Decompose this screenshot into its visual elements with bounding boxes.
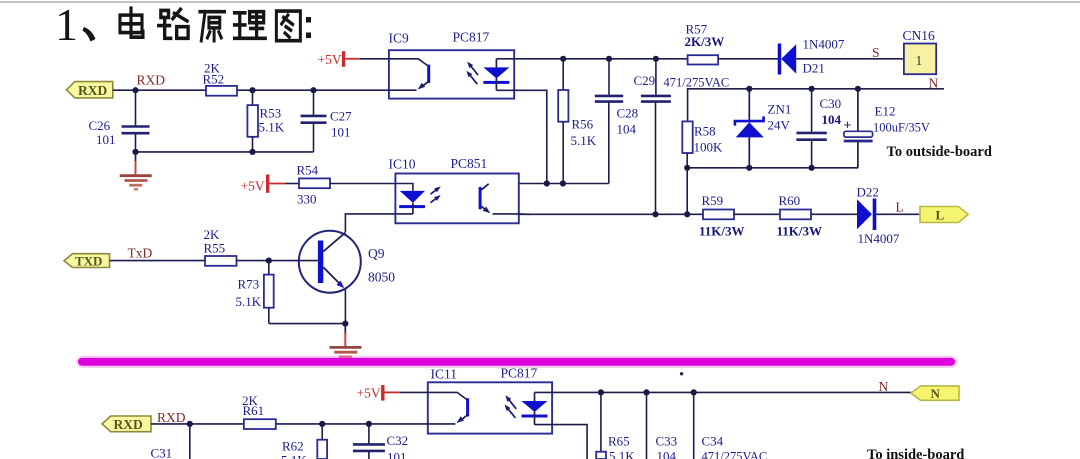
resistor R55 xyxy=(205,256,237,266)
svg-text:To outside-board: To outside-board xyxy=(887,144,992,160)
junction node C33 top xyxy=(643,389,649,395)
connector flag RXD (bottom) xyxy=(102,416,151,432)
title text 1、电路原理图: xyxy=(55,0,311,50)
wire +5V to R54 xyxy=(285,183,299,185)
LED inside IC10 xyxy=(395,184,425,214)
junction node R58 bottom xyxy=(684,165,690,171)
wire +5V to IC11 xyxy=(399,391,427,393)
wire R55 to Q9 base xyxy=(237,260,319,262)
junction node C30 bottom xyxy=(809,165,815,171)
junction node C29 top xyxy=(653,56,659,62)
wire IC10 LED cathode to Q9 collector xyxy=(345,214,413,232)
junction node ZN1 top xyxy=(746,86,752,92)
capacitor C34 wire (partial) xyxy=(693,392,695,459)
resistor R65 (partial) xyxy=(600,392,602,451)
svg-text:PC851: PC851 xyxy=(451,156,488,171)
wire TXD to R55 xyxy=(110,260,206,262)
svg-text:C28: C28 xyxy=(617,106,639,121)
svg-text:D22: D22 xyxy=(857,184,879,199)
svg-text:+5V: +5V xyxy=(357,385,381,400)
svg-text:IC11: IC11 xyxy=(431,367,458,382)
junction node IC9-IC10 link xyxy=(544,180,550,186)
junction node C34 top xyxy=(691,389,697,395)
svg-text:S: S xyxy=(872,45,880,60)
wire RXD to IC11 xyxy=(151,423,428,425)
diode D21 1N4007 xyxy=(778,44,797,75)
svg-text:1N4007: 1N4007 xyxy=(858,231,900,246)
light arrows of IC9 LED xyxy=(466,62,478,85)
junction node C28 top xyxy=(606,56,612,62)
svg-text:R59: R59 xyxy=(702,193,724,208)
capacitor C30 xyxy=(811,89,813,132)
stray dot mark xyxy=(680,372,683,375)
light arrows of IC10 LED xyxy=(431,186,441,202)
junction node R62 top xyxy=(319,421,325,427)
junction node E12 top xyxy=(855,86,861,92)
junction node C31 top xyxy=(187,421,193,427)
svg-text:C33: C33 xyxy=(656,433,678,448)
transistor inside IC9 (photo-transistor) xyxy=(389,59,430,90)
svg-text:R52: R52 xyxy=(203,72,225,87)
ground (Q9 emitter) xyxy=(344,324,346,337)
junction node R53 bottom xyxy=(249,149,255,155)
op-amp IC11 PC817 optocoupler box xyxy=(428,382,552,433)
svg-text:RXD: RXD xyxy=(78,83,107,98)
svg-text:E12: E12 xyxy=(875,104,896,119)
svg-text:104: 104 xyxy=(822,112,842,127)
svg-text:TXD: TXD xyxy=(75,253,102,268)
svg-text:To inside-board: To inside-board xyxy=(867,447,964,459)
svg-text:R62: R62 xyxy=(282,438,304,453)
svg-text:5.1K: 5.1K xyxy=(571,133,597,148)
svg-text:2K/3W: 2K/3W xyxy=(685,34,725,49)
transistor inside IC11 xyxy=(428,392,469,424)
wire R73 bottom to Q9 emitter xyxy=(269,323,346,325)
svg-text:R65: R65 xyxy=(608,433,630,448)
junction node ZN1 bottom xyxy=(746,165,752,171)
svg-text:PC817: PC817 xyxy=(453,30,490,45)
svg-text:R61: R61 xyxy=(243,403,265,418)
resistor R52 xyxy=(206,86,237,96)
svg-text:N: N xyxy=(931,386,941,401)
junction node Q9 emitter/ground xyxy=(342,321,348,327)
svg-text:L: L xyxy=(896,199,904,214)
wire R57 to D21 xyxy=(718,58,778,60)
svg-text:R60: R60 xyxy=(779,193,801,208)
svg-text:104: 104 xyxy=(617,121,637,136)
wire bottom of C26-R53-C27 xyxy=(136,151,314,153)
svg-text:Q9: Q9 xyxy=(368,246,385,261)
transistor inside IC10 xyxy=(479,184,519,214)
transistor Q9 8050 xyxy=(299,231,361,324)
svg-text:C27: C27 xyxy=(330,108,352,123)
svg-text:1: 1 xyxy=(55,0,78,50)
connector flag TXD xyxy=(64,254,110,268)
svg-text:CN16: CN16 xyxy=(903,28,936,43)
svg-text:RXD: RXD xyxy=(157,410,186,425)
junction node R65 top xyxy=(598,389,604,395)
svg-text:C26: C26 xyxy=(89,118,111,133)
svg-text:C34: C34 xyxy=(702,433,724,448)
wire N rail xyxy=(688,89,944,122)
svg-text:104: 104 xyxy=(657,449,677,459)
capacitor C29 xyxy=(655,59,657,95)
resistor R56 xyxy=(562,59,564,90)
svg-text:D21: D21 xyxy=(803,61,825,76)
svg-text:471/275VAC: 471/275VAC xyxy=(702,449,768,459)
junction node rail tap xyxy=(684,211,690,217)
junction node ground wire xyxy=(132,149,138,155)
wire D21 to CN16 xyxy=(796,58,904,60)
wire +5V to IC9 xyxy=(360,58,389,60)
resistor R57 xyxy=(688,55,719,64)
resistor R59 xyxy=(703,210,734,220)
svg-text:N: N xyxy=(879,379,889,394)
svg-text:C31: C31 xyxy=(151,446,173,459)
junction node at RXD / C26 xyxy=(132,87,138,93)
svg-text:R58: R58 xyxy=(694,123,716,138)
capacitor C28 xyxy=(608,59,610,95)
svg-text:RXD: RXD xyxy=(114,417,143,432)
resistor R73 xyxy=(268,261,270,275)
svg-text:+5V: +5V xyxy=(318,52,342,67)
svg-text:RXD: RXD xyxy=(137,73,166,88)
wire RXD flag to R52 xyxy=(113,89,206,91)
resistor R62 (partial) xyxy=(321,424,323,440)
svg-text:C30: C30 xyxy=(820,96,842,111)
svg-text:C29: C29 xyxy=(634,73,656,88)
zener diode ZN1 24V xyxy=(735,89,764,168)
svg-text:471/275VAC: 471/275VAC xyxy=(664,76,730,90)
svg-text:TxD: TxD xyxy=(128,246,153,261)
svg-text:+5V: +5V xyxy=(241,179,265,194)
capacitor C27 xyxy=(313,90,315,115)
op-amp IC9 PC817 optocoupler box xyxy=(389,50,514,98)
junction node C29 bottom xyxy=(652,211,658,217)
junction node R56 top xyxy=(560,56,566,62)
capacitor C33 wire (partial) xyxy=(646,392,648,459)
resistor R54 xyxy=(299,178,330,188)
junction node at C27 top xyxy=(310,87,316,93)
separator bar xyxy=(76,356,957,368)
resistor R58 xyxy=(682,121,692,153)
wire IC10 emitter to rail xyxy=(519,213,530,215)
svg-text:5.1K: 5.1K xyxy=(236,294,262,309)
wire zener group bottom xyxy=(687,167,858,169)
capacitor C32 xyxy=(368,424,370,444)
svg-text:100uF/35V: 100uF/35V xyxy=(873,120,930,134)
ground (RXD filter) xyxy=(135,152,137,165)
svg-text:5.1K: 5.1K xyxy=(259,120,285,135)
svg-text:101: 101 xyxy=(96,132,116,147)
svg-text:5.1K: 5.1K xyxy=(609,449,635,459)
svg-text:R73: R73 xyxy=(238,276,260,291)
svg-text:C32: C32 xyxy=(387,433,409,448)
connector flag L xyxy=(920,207,968,223)
LED inside IC11 xyxy=(522,392,548,424)
svg-text:101: 101 xyxy=(387,450,407,459)
connector flag RXD (top input) xyxy=(66,82,112,98)
resistor R53 xyxy=(252,90,254,105)
svg-text:R54: R54 xyxy=(297,162,319,177)
connector flag N xyxy=(911,386,959,400)
svg-text:8050: 8050 xyxy=(368,269,395,284)
op-amp IC10 PC851 optocoupler box xyxy=(395,174,518,224)
junction node at R53 top xyxy=(249,87,255,93)
junction node R56 bottom xyxy=(560,180,566,186)
electrolytic capacitor E12 xyxy=(844,89,873,168)
svg-text:R56: R56 xyxy=(572,117,594,132)
resistor R60 xyxy=(780,210,811,220)
svg-text:100K: 100K xyxy=(694,140,724,155)
svg-text:5.1K: 5.1K xyxy=(281,453,307,459)
wire IC10 collector row xyxy=(519,183,609,185)
svg-text:ZN1: ZN1 xyxy=(768,102,792,117)
junction node C32 top xyxy=(366,421,372,427)
svg-text:IC10: IC10 xyxy=(389,157,416,172)
svg-text:1: 1 xyxy=(916,53,923,68)
diode D22 1N4007 xyxy=(857,199,876,231)
svg-text:1N4007: 1N4007 xyxy=(803,37,845,52)
svg-text:24V: 24V xyxy=(768,118,791,133)
capacitor C31 (partial) xyxy=(189,424,191,459)
svg-text:IC9: IC9 xyxy=(389,31,410,46)
wire R59 to R60 xyxy=(734,213,780,215)
wire R54 to IC10 xyxy=(330,183,395,185)
wire R60 to D22 xyxy=(811,213,857,215)
junction node R73 top xyxy=(266,258,272,264)
svg-text:330: 330 xyxy=(297,191,317,206)
wire IC9 LED cathode down to IC10 collector xyxy=(496,90,546,183)
svg-text:11K/3W: 11K/3W xyxy=(777,223,823,238)
svg-text:11K/3W: 11K/3W xyxy=(699,223,745,238)
capacitor C26 xyxy=(135,90,137,125)
svg-text:L: L xyxy=(936,207,945,222)
wire N rail (bottom section) xyxy=(535,391,912,393)
wire R58 bottom to rail xyxy=(686,153,688,214)
svg-text:R53: R53 xyxy=(260,106,282,121)
svg-text:PC817: PC817 xyxy=(501,366,538,381)
wire IC11 LED cathode going down-right xyxy=(535,425,588,459)
junction node C30 top xyxy=(809,86,815,92)
LED inside IC9 xyxy=(483,59,509,91)
wire D22 to L flag xyxy=(876,213,920,215)
light arrows of IC11 LED xyxy=(505,395,517,418)
wire L rail from IC10 emitter xyxy=(519,213,703,215)
wire R52 to IC9 pin xyxy=(237,89,389,91)
resistor R61 xyxy=(244,419,276,429)
wire top rail from IC9 LED anode to R57 xyxy=(496,58,687,60)
svg-text:R55: R55 xyxy=(204,240,226,255)
svg-text:101: 101 xyxy=(331,124,351,139)
